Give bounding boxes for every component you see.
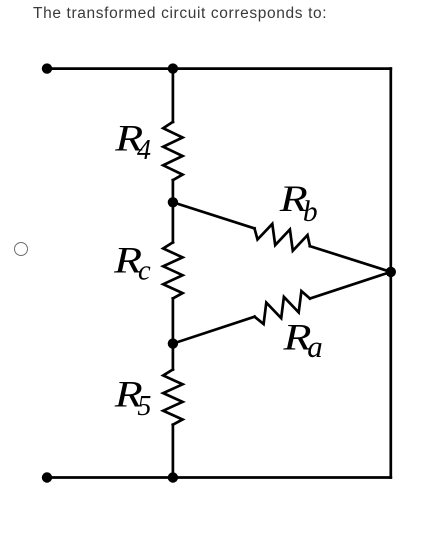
resistor Rc (163, 242, 182, 298)
wire R4 to node B (172, 180, 175, 202)
wire right vertical (389, 69, 392, 478)
svg-text:c: c (138, 255, 151, 286)
node C (Rc/R5/Ra junction) (168, 338, 178, 348)
wire R5 to bottom (172, 425, 175, 478)
radio button option (14, 242, 28, 256)
label R4 (114, 118, 151, 166)
wire top horizontal (47, 67, 391, 70)
resistor Rb (255, 224, 310, 251)
label Rb (279, 179, 318, 228)
node E (bottom junction) (168, 472, 178, 482)
label Rc (113, 241, 151, 287)
resistor R4 (163, 122, 182, 180)
wire Rc to node C (172, 298, 175, 343)
wire Rb to node D (310, 246, 391, 272)
node D (right junction) (386, 267, 396, 277)
label Ra (282, 318, 322, 365)
svg-text:4: 4 (137, 135, 151, 166)
svg-text:5: 5 (137, 391, 151, 422)
wire middle top (node to R4) (172, 69, 175, 122)
svg-text:a: a (307, 329, 323, 364)
resistor R5 (163, 370, 182, 425)
wire node C to Ra (173, 317, 255, 344)
svg-text:b: b (303, 196, 318, 228)
terminal dot top-left (42, 63, 52, 73)
title text (33, 5, 327, 23)
wire node B to Rb (173, 202, 255, 228)
resistor Ra (255, 291, 310, 324)
wire bottom horizontal (47, 476, 391, 479)
label R5 (114, 375, 152, 422)
wire node B to Rc (172, 202, 175, 242)
wire Ra to node D (310, 272, 391, 299)
node A (top junction) (168, 63, 178, 73)
wire node C to R5 (172, 344, 175, 370)
node B (R4/Rc/Rb junction) (168, 197, 178, 207)
terminal dot bottom-left (42, 472, 52, 482)
